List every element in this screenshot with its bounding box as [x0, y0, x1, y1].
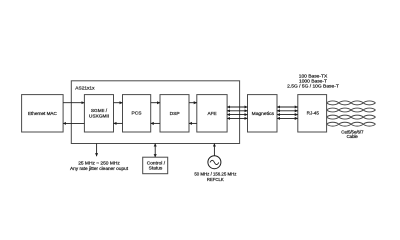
svg-text:REFCLK: REFCLK	[207, 177, 224, 182]
wire AFE-Magnetics pair 3	[227, 114, 247, 116]
wire AFE-Magnetics pair 2	[227, 110, 247, 112]
svg-text:Status: Status	[149, 166, 163, 172]
oscillator symbol	[208, 156, 221, 169]
wire SGMII to PCS	[114, 102, 123, 104]
wire Magnetics-RJ45 pair 2	[277, 110, 298, 112]
wire Magnetics-RJ45 pair 1	[277, 106, 298, 108]
cable twisted pair 4	[327, 122, 376, 126]
wire PCS to SGMII	[114, 122, 123, 124]
block Ethernet MAC	[22, 95, 64, 132]
block Control/Status	[143, 157, 168, 174]
block Magnetics	[248, 95, 278, 132]
svg-text:2.5G / 5G / 10G Base-T: 2.5G / 5G / 10G Base-T	[287, 84, 339, 90]
block AFE	[197, 95, 227, 132]
svg-text:50 MHz / 156.25 MHz: 50 MHz / 156.25 MHz	[194, 172, 236, 177]
wire control/status	[154, 144, 156, 158]
wire DSP to AFE	[189, 102, 197, 104]
svg-text:PCS: PCS	[131, 111, 142, 117]
cable twisted pair 3	[327, 115, 376, 119]
block SGMII/USXGMII	[84, 95, 113, 132]
wire DSP to PCS	[151, 122, 160, 124]
block RJ-45	[298, 95, 327, 132]
svg-text:Ethernet MAC: Ethernet MAC	[28, 111, 58, 116]
wire MAC to SGMII	[63, 102, 84, 104]
svg-text:RJ-45: RJ-45	[307, 111, 320, 116]
svg-text:AFE: AFE	[208, 111, 217, 116]
wire AFE-Magnetics pair 4	[227, 117, 247, 119]
wire refclk	[213, 144, 215, 156]
chip outline AS21x1x	[71, 81, 239, 144]
svg-text:USXGMII: USXGMII	[89, 114, 109, 120]
svg-text:AS21x1x: AS21x1x	[75, 86, 95, 92]
wire jitter cleaner output	[96, 144, 98, 157]
svg-text:Cable: Cable	[347, 134, 359, 139]
wire AFE-Magnetics pair 1	[227, 106, 247, 108]
wire Magnetics-RJ45 pair 3	[277, 114, 298, 116]
cable twisted pair 2	[327, 108, 376, 112]
svg-text:SGMII /: SGMII /	[91, 108, 108, 114]
svg-text:DSP: DSP	[170, 111, 180, 117]
block DSP	[160, 95, 189, 132]
wire AFE to DSP	[189, 122, 197, 124]
svg-text:Any rate jitter cleaner ouput: Any rate jitter cleaner ouput	[70, 166, 129, 172]
wire Magnetics-RJ45 pair 4	[277, 117, 298, 119]
wire PCS to DSP	[151, 102, 160, 104]
block PCS	[123, 95, 151, 132]
wire SGMII to MAC	[63, 122, 84, 124]
svg-text:Magnetics: Magnetics	[252, 111, 275, 117]
svg-text:25 MHz ~ 250 MHz: 25 MHz ~ 250 MHz	[78, 161, 120, 167]
cable twisted pair 1	[327, 101, 376, 105]
